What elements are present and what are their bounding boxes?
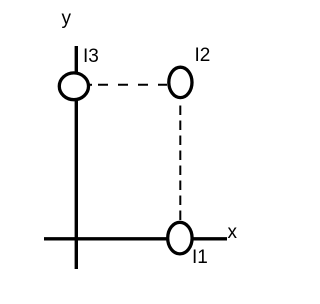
wire: dashed stub from I3: [87, 84, 93, 86]
wire: horizontal dashed line I3 to I2: [98, 84, 167, 86]
svg-text:I3: I3: [83, 46, 99, 67]
wire: vertical dashed line I2 to I1: [179, 106, 181, 222]
svg-text:y: y: [62, 8, 72, 29]
conductor I2: [169, 67, 192, 97]
svg-text:I1: I1: [192, 247, 208, 268]
svg-text:x: x: [228, 222, 238, 243]
y-axis: [75, 46, 78, 269]
x-axis: [44, 237, 227, 240]
conductor I3: [59, 73, 88, 100]
svg-text:I2: I2: [195, 45, 211, 66]
conductor I1: [168, 222, 192, 254]
